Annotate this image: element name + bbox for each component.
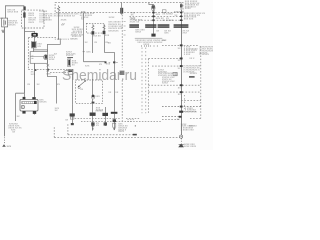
bottom component Q1 <box>92 112 94 130</box>
svg-text:XX: XX <box>54 54 57 56</box>
splice label <box>83 51 85 53</box>
svg-text:XX: XX <box>170 14 173 16</box>
fuse F8 <box>92 24 94 33</box>
svg-text:XX: XX <box>72 65 75 67</box>
svg-text:XXXXX: XXXXX <box>66 55 74 57</box>
svg-text:XX: XX <box>108 43 111 45</box>
svg-text:XXX XXX: XXX XXX <box>184 19 194 21</box>
wire coil to contact <box>34 48 48 52</box>
splice node on center wire <box>113 61 115 63</box>
relay K1 contact <box>44 55 48 60</box>
svg-text:XXXXX: XXXXX <box>189 112 197 114</box>
svg-text:Shemidar.ru: Shemidar.ru <box>62 67 137 84</box>
switch wire in <box>92 79 94 95</box>
svg-text:XXXX: XXXX <box>185 8 191 10</box>
svg-text:XXX: XXX <box>86 52 91 54</box>
svg-text:XX: XX <box>62 23 65 25</box>
wire connector block down <box>72 74 74 104</box>
thermal limiter circle <box>21 105 24 108</box>
bottom component K2 <box>72 105 74 124</box>
svg-text:X/X: X/X <box>37 46 41 48</box>
pin ticks on dashed column <box>124 22 126 36</box>
svg-text:X XXX: X XXX <box>184 54 191 56</box>
switch blade <box>78 86 79 87</box>
svg-text:X XX: X XX <box>39 22 45 24</box>
resistor component small <box>173 72 177 75</box>
F42 junction <box>152 19 154 21</box>
fuse F9 <box>103 24 105 32</box>
ground symbol G1 <box>1 30 4 32</box>
svg-text:XX: XX <box>175 15 178 17</box>
connector C100 <box>31 33 37 37</box>
svg-text:XXX: XXX <box>31 74 36 76</box>
small relay box on block edge <box>162 10 166 13</box>
crossing nodes at module edge <box>35 69 37 71</box>
svg-text:XX: XX <box>108 92 111 94</box>
dashed column BCM left edge <box>121 15 123 122</box>
svg-text:XXX XXXXXXX XXXXXX: XXX XXXXXXX XXXXXX <box>137 42 163 44</box>
svg-text:XX: XX <box>178 48 181 50</box>
wire F9 down and L net <box>105 34 115 52</box>
svg-text:XX: XX <box>80 89 83 91</box>
svg-text:XX: XX <box>96 125 99 127</box>
wire left ground rail <box>4 27 6 136</box>
dashed box right module left edge <box>147 59 149 113</box>
clutch coil <box>22 101 37 103</box>
svg-text:XXX: XXX <box>46 73 51 75</box>
rail junction nodes <box>179 44 184 117</box>
svg-text:XXX: XXX <box>85 65 90 67</box>
clutch top connectors <box>23 97 26 100</box>
header strip top line <box>135 37 163 39</box>
svg-text:XX X: XX X <box>189 58 195 60</box>
svg-text:XXX: XXX <box>95 96 100 98</box>
svg-text:XXXX: XXXX <box>174 11 180 13</box>
connector C1 blob <box>151 34 155 37</box>
svg-text:X XXXX XXX: X XXXX XXX <box>181 130 195 132</box>
svg-text:XX XXXX XXXXX XX: XX XXXX XXXXX XX <box>54 16 76 18</box>
svg-text:XXXX XXXX: XXXX XXXX <box>184 146 197 148</box>
svg-text:XXX: XXX <box>164 33 169 35</box>
svg-text:XXXXX: XXXXX <box>70 38 78 40</box>
splice ring on rail <box>180 135 183 138</box>
svg-text:XX: XX <box>27 84 30 86</box>
node A bottom-left page ref <box>2 144 6 147</box>
diode component mid <box>68 59 71 67</box>
svg-text:XXX: XXX <box>183 33 188 35</box>
svg-text:XX: XX <box>65 120 68 122</box>
clutch bottom connectors <box>22 111 25 114</box>
fuse F47 right <box>180 4 182 7</box>
svg-text:XXX: XXX <box>106 64 111 66</box>
fuse F1 <box>24 11 26 28</box>
wire contact feed from connector <box>48 40 61 51</box>
svg-text:X XXXXX: X XXXXX <box>199 54 209 56</box>
connector node at U1 right corner <box>23 6 25 10</box>
svg-text:XX: XX <box>12 131 15 133</box>
svg-text:X X X X X X X: X X X X X X X <box>55 39 70 41</box>
svg-text:XX: XX <box>57 84 60 86</box>
svg-text:XXXXX: XXXXX <box>39 101 47 103</box>
box U1 top-left junction block <box>5 6 24 18</box>
battery B1 <box>2 18 8 27</box>
connector block mid <box>68 70 73 75</box>
svg-text:XXXX: XXXX <box>162 83 168 85</box>
dashed twin columns <box>141 48 143 114</box>
svg-text:XXXX XX: XXXX XX <box>130 21 140 23</box>
fuse F34 connector <box>120 8 123 14</box>
svg-text:XX: XX <box>55 110 58 112</box>
wire contact output jog <box>48 60 57 104</box>
svg-text:XX: XX <box>85 42 88 44</box>
crossing mark X1 <box>47 64 50 66</box>
wire C100 to relay coil <box>34 37 36 43</box>
junctions on rail <box>180 12 182 14</box>
wire branch to connector C100 <box>25 31 35 33</box>
svg-text:XX XXXXX: XX XXXXX <box>162 20 174 22</box>
wire F8 down <box>92 35 94 53</box>
connector row C2 dashed <box>129 15 183 17</box>
svg-text:XX: XX <box>99 64 102 66</box>
svg-text:XX: XX <box>178 60 181 62</box>
svg-text:XXXX: XXXX <box>61 20 67 22</box>
relay K1 coil <box>32 42 36 48</box>
svg-text:XXX: XXX <box>162 40 167 42</box>
svg-text:XX: XX <box>178 88 181 90</box>
pin tick row <box>141 45 157 47</box>
svg-text:XXXX: XXXX <box>135 31 141 33</box>
svg-text:XXX: XXX <box>156 14 161 16</box>
svg-text:XXX: XXX <box>105 35 110 37</box>
center wire net <box>114 52 116 111</box>
svg-text:XXXX XXX: XXXX XXX <box>7 12 19 14</box>
fuse F42 <box>149 2 154 4</box>
dashed box right module right edge <box>189 46 201 118</box>
A/C compressor clutch box <box>20 99 38 111</box>
svg-text:XX: XX <box>37 84 40 86</box>
misc marks <box>134 125 136 127</box>
svg-text:XX: XX <box>94 42 97 44</box>
svg-text:XXXXX: XXXXX <box>95 111 103 113</box>
svg-text:XXXX: XXXX <box>109 17 115 19</box>
dashed stub right of rail <box>183 111 196 113</box>
svg-text:XXX: XXX <box>189 125 194 127</box>
connector row C3 dashed <box>135 19 183 21</box>
pressure switch dashed box <box>75 80 102 103</box>
dark bar right <box>189 76 195 77</box>
bottom component Q2 <box>105 107 107 126</box>
wire fused feed down <box>24 28 26 93</box>
svg-text:XXX: XXX <box>7 146 12 148</box>
svg-text:XXXXX: XXXXX <box>8 25 16 27</box>
dashed stub rows to rail <box>162 44 198 46</box>
svg-text:XXX: XXX <box>185 112 190 114</box>
fuse F20 <box>57 5 59 12</box>
dashed box left module <box>27 38 29 70</box>
svg-text:XX: XX <box>178 94 181 96</box>
connector dark on column <box>120 71 125 75</box>
svg-text:XX: XX <box>17 116 20 118</box>
svg-text:XX: XX <box>177 119 180 121</box>
underhood fuse block dashed box <box>55 2 183 12</box>
svg-text:XXXX: XXXX <box>118 131 124 133</box>
F8 connector <box>92 31 95 34</box>
main right rail wire <box>181 10 183 135</box>
bottom dashed connector rows <box>75 118 121 120</box>
wire F20 output <box>58 13 60 40</box>
svg-text:XXXXX: XXXXX <box>190 73 198 75</box>
svg-text:XXXX: XXXX <box>49 59 55 61</box>
pressure switch body <box>92 95 95 99</box>
relay K1 box <box>30 52 47 64</box>
svg-text:XXXX: XXXX <box>28 22 34 24</box>
bottom component T1 terminal <box>111 112 118 114</box>
svg-text:XX: XX <box>156 30 159 32</box>
switch wire out <box>92 99 94 112</box>
svg-text:XX: XX <box>178 68 181 70</box>
svg-text:XXXXXXX: XXXXXXX <box>108 30 119 32</box>
short dashed col right of rail <box>184 95 186 109</box>
junction at box bottom <box>92 102 95 104</box>
svg-text:XX: XX <box>115 92 118 94</box>
F9 connector <box>103 31 106 34</box>
sub fuse box dashed <box>86 23 104 33</box>
clutch feed jog to ground wire <box>16 93 25 121</box>
svg-text:XX: XX <box>81 19 84 21</box>
ground G2 bottom right <box>179 144 184 146</box>
wire relay to clutch <box>34 63 36 97</box>
svg-text:XXX XX: XXX XX <box>93 36 102 38</box>
bottom dashed PCM box edges <box>67 124 69 135</box>
wire A down <box>83 13 85 62</box>
dark label blobs row <box>129 24 188 28</box>
junctions on wire F42 <box>152 12 154 14</box>
fuse block F dashed box top-left <box>22 10 44 28</box>
